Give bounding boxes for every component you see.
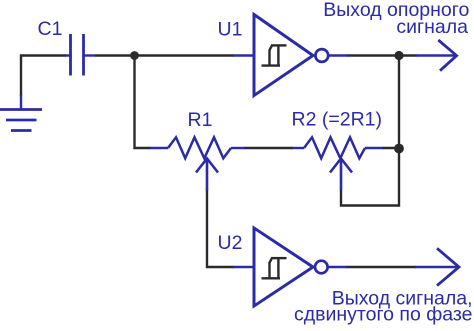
svg-text:сигнала: сигнала <box>396 16 468 38</box>
svg-text:U1: U1 <box>218 18 243 40</box>
svg-text:U2: U2 <box>218 232 243 254</box>
svg-text:R1: R1 <box>188 109 213 131</box>
svg-text:C1: C1 <box>38 18 63 40</box>
svg-text:сдвинутого по фазе: сдвинутого по фазе <box>294 303 472 325</box>
svg-text:R2 (=2R1): R2 (=2R1) <box>292 108 383 130</box>
